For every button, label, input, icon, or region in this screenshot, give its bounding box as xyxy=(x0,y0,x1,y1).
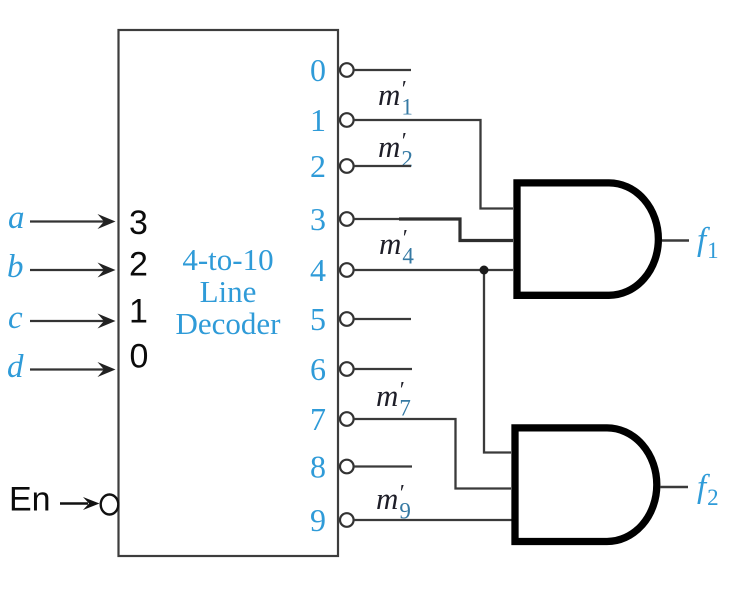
AND gate U3 (f2) xyxy=(515,428,657,542)
wire f1 output xyxy=(662,239,689,242)
svg-text:1: 1 xyxy=(310,102,326,138)
bubble pin 6 xyxy=(340,362,354,376)
wire input b xyxy=(30,263,116,278)
wire m0 stub xyxy=(354,69,411,71)
svg-text:9: 9 xyxy=(310,502,326,538)
svg-text:4: 4 xyxy=(310,252,326,288)
junction dot on m4 xyxy=(480,266,489,275)
wire m2 stub xyxy=(354,165,411,167)
bubble pin 3 xyxy=(340,212,354,226)
svg-text:2: 2 xyxy=(129,246,148,284)
wire En xyxy=(60,497,100,510)
wire m9 to gate2 xyxy=(354,519,515,521)
svg-text:7: 7 xyxy=(310,401,326,437)
wire m7 to gate2 xyxy=(354,419,511,489)
bubble pin 7 xyxy=(340,412,354,426)
bubble pin 1 xyxy=(340,113,354,127)
wire m5 stub xyxy=(354,318,411,320)
svg-text:d: d xyxy=(7,349,24,385)
svg-text:4-to-10: 4-to-10 xyxy=(182,242,273,277)
bubble pin 2 xyxy=(340,159,354,173)
bubble pin 4 xyxy=(340,263,354,277)
AND gate U2 (f1) xyxy=(517,183,658,295)
En bubble xyxy=(101,495,119,515)
wire m8 stub xyxy=(354,465,412,467)
bubble pin 5 xyxy=(340,312,354,326)
svg-text:6: 6 xyxy=(310,351,326,387)
svg-text:Line: Line xyxy=(200,274,257,309)
svg-text:3: 3 xyxy=(310,201,326,237)
decoder label "4-to-10 Line Decoder" xyxy=(176,242,282,341)
wire m1 to gate1 xyxy=(354,120,513,209)
wire input c xyxy=(30,314,116,329)
svg-text:c: c xyxy=(8,300,23,336)
svg-text:2: 2 xyxy=(310,148,326,184)
wire f2 output xyxy=(660,486,688,489)
svg-text:1: 1 xyxy=(129,293,148,331)
wire input d xyxy=(30,362,116,377)
bubble pin 9 xyxy=(340,513,354,527)
svg-text:b: b xyxy=(7,249,24,285)
wire input a xyxy=(30,214,116,229)
wire m4 to gate1 xyxy=(354,269,513,271)
svg-text:0: 0 xyxy=(130,338,149,376)
wire m6 stub xyxy=(354,368,412,370)
svg-text:3: 3 xyxy=(129,204,148,242)
wire m3 to gate1 xyxy=(354,218,400,220)
svg-text:8: 8 xyxy=(310,449,326,485)
wire m4 branch down to gate2 xyxy=(484,270,511,453)
svg-text:Decoder: Decoder xyxy=(176,306,282,341)
svg-text:a: a xyxy=(8,200,25,236)
svg-text:5: 5 xyxy=(310,301,326,337)
decoder box U1 xyxy=(119,30,339,556)
svg-text:0: 0 xyxy=(310,52,326,88)
bubble pin 0 xyxy=(340,63,354,77)
bubble pin 8 xyxy=(340,460,354,474)
svg-text:En: En xyxy=(9,481,51,519)
